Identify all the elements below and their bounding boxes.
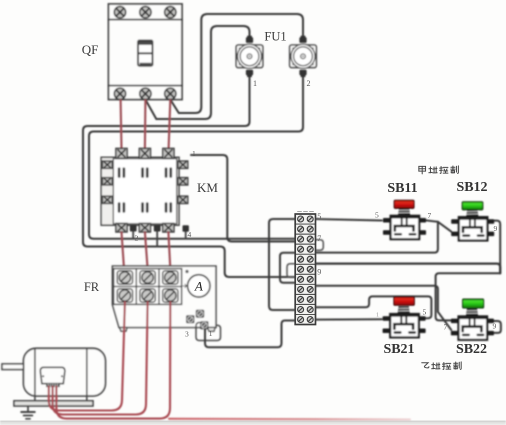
strip screws bbox=[298, 216, 314, 323]
svg-text:A: A bbox=[194, 279, 203, 294]
svg-text:SB22: SB22 bbox=[456, 342, 487, 357]
KM top terminals bbox=[116, 148, 174, 158]
wire strip row4 to SB11 right junction (riser) bbox=[316, 222, 438, 253]
FR feet bbox=[120, 328, 216, 332]
svg-text:2: 2 bbox=[307, 79, 311, 88]
label yidikongzhi (drawn strokes) bbox=[422, 362, 461, 369]
ammeter A bbox=[183, 270, 210, 297]
svg-text:9: 9 bbox=[317, 268, 321, 277]
svg-text:4: 4 bbox=[188, 230, 192, 239]
red wire QF pole 3 to KM bbox=[169, 100, 171, 149]
svg-text:FU1: FU1 bbox=[264, 30, 286, 44]
strip left big loop row1-row10 bbox=[269, 219, 295, 310]
photo bottom edge band bbox=[0, 421, 506, 425]
wire SB12 right down right edge bbox=[488, 221, 500, 274]
pushbutton SB11 red cap bbox=[394, 200, 414, 208]
svg-text:2: 2 bbox=[135, 234, 139, 243]
svg-text:KM: KM bbox=[197, 180, 218, 195]
red wire FR pole 1 to motor bbox=[49, 302, 125, 411]
QF toggle handle bbox=[138, 41, 153, 66]
svg-text:5: 5 bbox=[317, 212, 321, 221]
pushbutton SB21 body bbox=[383, 306, 426, 337]
strip left mid loop bbox=[280, 253, 295, 283]
KM bottom terminals bbox=[116, 223, 174, 232]
FR aux wire loop bbox=[196, 323, 221, 341]
red wire KM pole 3 to FR bbox=[168, 232, 170, 269]
svg-text:1: 1 bbox=[376, 313, 379, 319]
svg-text:SB21: SB21 bbox=[383, 342, 414, 357]
KM aux stub wire bbox=[185, 232, 187, 239]
terminal strip body bbox=[295, 214, 315, 325]
strip right small loop rows 3-4 bbox=[316, 240, 324, 250]
red wire QF pole 1 to KM bbox=[120, 100, 123, 149]
KM right side terminals bbox=[178, 161, 188, 204]
motor terminal box bbox=[40, 367, 65, 383]
strip tiny marks above bbox=[298, 211, 314, 213]
svg-text:5: 5 bbox=[423, 308, 427, 317]
wire KM top right to terminal strip row 3 bbox=[191, 155, 296, 242]
KM coil stub wire bbox=[156, 232, 158, 247]
motor shaft bbox=[2, 364, 24, 370]
wire QF middle pole to fuse 1 bbox=[145, 26, 249, 119]
red wire FR pole 2 to motor bbox=[53, 302, 148, 415]
fuse FU1-1 bbox=[236, 36, 263, 77]
KM coil terminal A2 bbox=[154, 225, 161, 232]
svg-text:QF: QF bbox=[82, 42, 99, 57]
svg-text:9: 9 bbox=[493, 322, 497, 331]
wire fuse 2 to left loop under KM bbox=[89, 74, 303, 239]
FR aux screw c bbox=[200, 321, 208, 329]
FR heater element grid bbox=[114, 269, 182, 305]
fuse FU1-2 bbox=[290, 36, 317, 77]
long red wire along bottom bbox=[169, 418, 410, 421]
contactor KM body bbox=[101, 157, 179, 225]
circuit breaker QF bbox=[109, 4, 183, 100]
red wire KM pole 2 to FR bbox=[145, 232, 148, 269]
pushbutton SB22 body bbox=[451, 309, 494, 340]
KM left side terminals bbox=[102, 161, 112, 204]
label jiadikongzhi (drawn strokes) bbox=[419, 166, 459, 174]
thermal relay FR body bbox=[112, 266, 216, 328]
QF terminal screws bbox=[114, 7, 176, 100]
pushbutton SB12 green cap bbox=[462, 202, 483, 210]
svg-text:7: 7 bbox=[317, 234, 321, 243]
wire strip row11 to SB21 left upper bbox=[316, 318, 382, 320]
pushbutton SB12 body bbox=[451, 209, 494, 240]
motor terminal block bbox=[46, 384, 60, 387]
wire strip row5 to right edge riser bbox=[316, 264, 501, 274]
terminal strip rows and screws bbox=[295, 224, 315, 314]
strip left small loop bbox=[287, 264, 295, 278]
wire right edge to SB22 left upper bbox=[436, 273, 501, 320]
red wire KM pole 1 to FR bbox=[122, 232, 125, 269]
svg-text:1: 1 bbox=[192, 149, 196, 158]
svg-text:SB11: SB11 bbox=[387, 181, 417, 196]
pushbutton SB11 body bbox=[383, 208, 426, 239]
motor end ring right bbox=[86, 348, 88, 401]
wire strip row8 to SB22 lower left (via diagonal) bbox=[316, 286, 452, 330]
svg-text:5: 5 bbox=[375, 211, 379, 220]
ground bbox=[21, 406, 35, 419]
red wire FR pole 3 to motor bbox=[56, 302, 170, 419]
wire SB22 right loop bbox=[488, 321, 501, 333]
KM coil stub wire 2 bbox=[132, 232, 134, 239]
svg-text:3: 3 bbox=[185, 330, 189, 339]
wire FR terminal 3 to terminal strip bottom bbox=[205, 321, 296, 348]
wire QF right pole to fuse 2 bbox=[170, 14, 303, 113]
svg-text:7: 7 bbox=[444, 323, 448, 332]
red wire QF pole 2 to KM bbox=[144, 100, 147, 149]
motor end ring left bbox=[34, 348, 36, 401]
wire strip row1 to SB11 left bbox=[316, 219, 382, 221]
FR screws (6) bbox=[117, 271, 178, 302]
FR aux screw a bbox=[186, 315, 194, 323]
svg-text:FR: FR bbox=[84, 280, 100, 294]
svg-text:7: 7 bbox=[428, 211, 432, 220]
svg-text:9: 9 bbox=[494, 224, 498, 233]
FR aux screw b bbox=[196, 310, 204, 318]
svg-text:1: 1 bbox=[253, 79, 257, 88]
wire fuse 1 to left loop into terminal strip row 7 bbox=[83, 74, 296, 278]
KM aux terminal bbox=[183, 225, 189, 232]
svg-text:1: 1 bbox=[209, 329, 213, 338]
KM main contacts (double bars) bbox=[118, 167, 172, 212]
pushbutton SB22 green cap bbox=[463, 299, 484, 308]
wire strip row9 to SB21 right upper bbox=[316, 296, 432, 318]
KM coil terminal A1 bbox=[130, 225, 137, 232]
svg-text:SB12: SB12 bbox=[456, 180, 487, 195]
wire SB11 right to SB12 lower left (diagonal) bbox=[426, 220, 451, 231]
motor body bbox=[24, 348, 106, 396]
motor base plate bbox=[14, 401, 93, 406]
pushbutton SB21 red cap bbox=[394, 297, 414, 305]
